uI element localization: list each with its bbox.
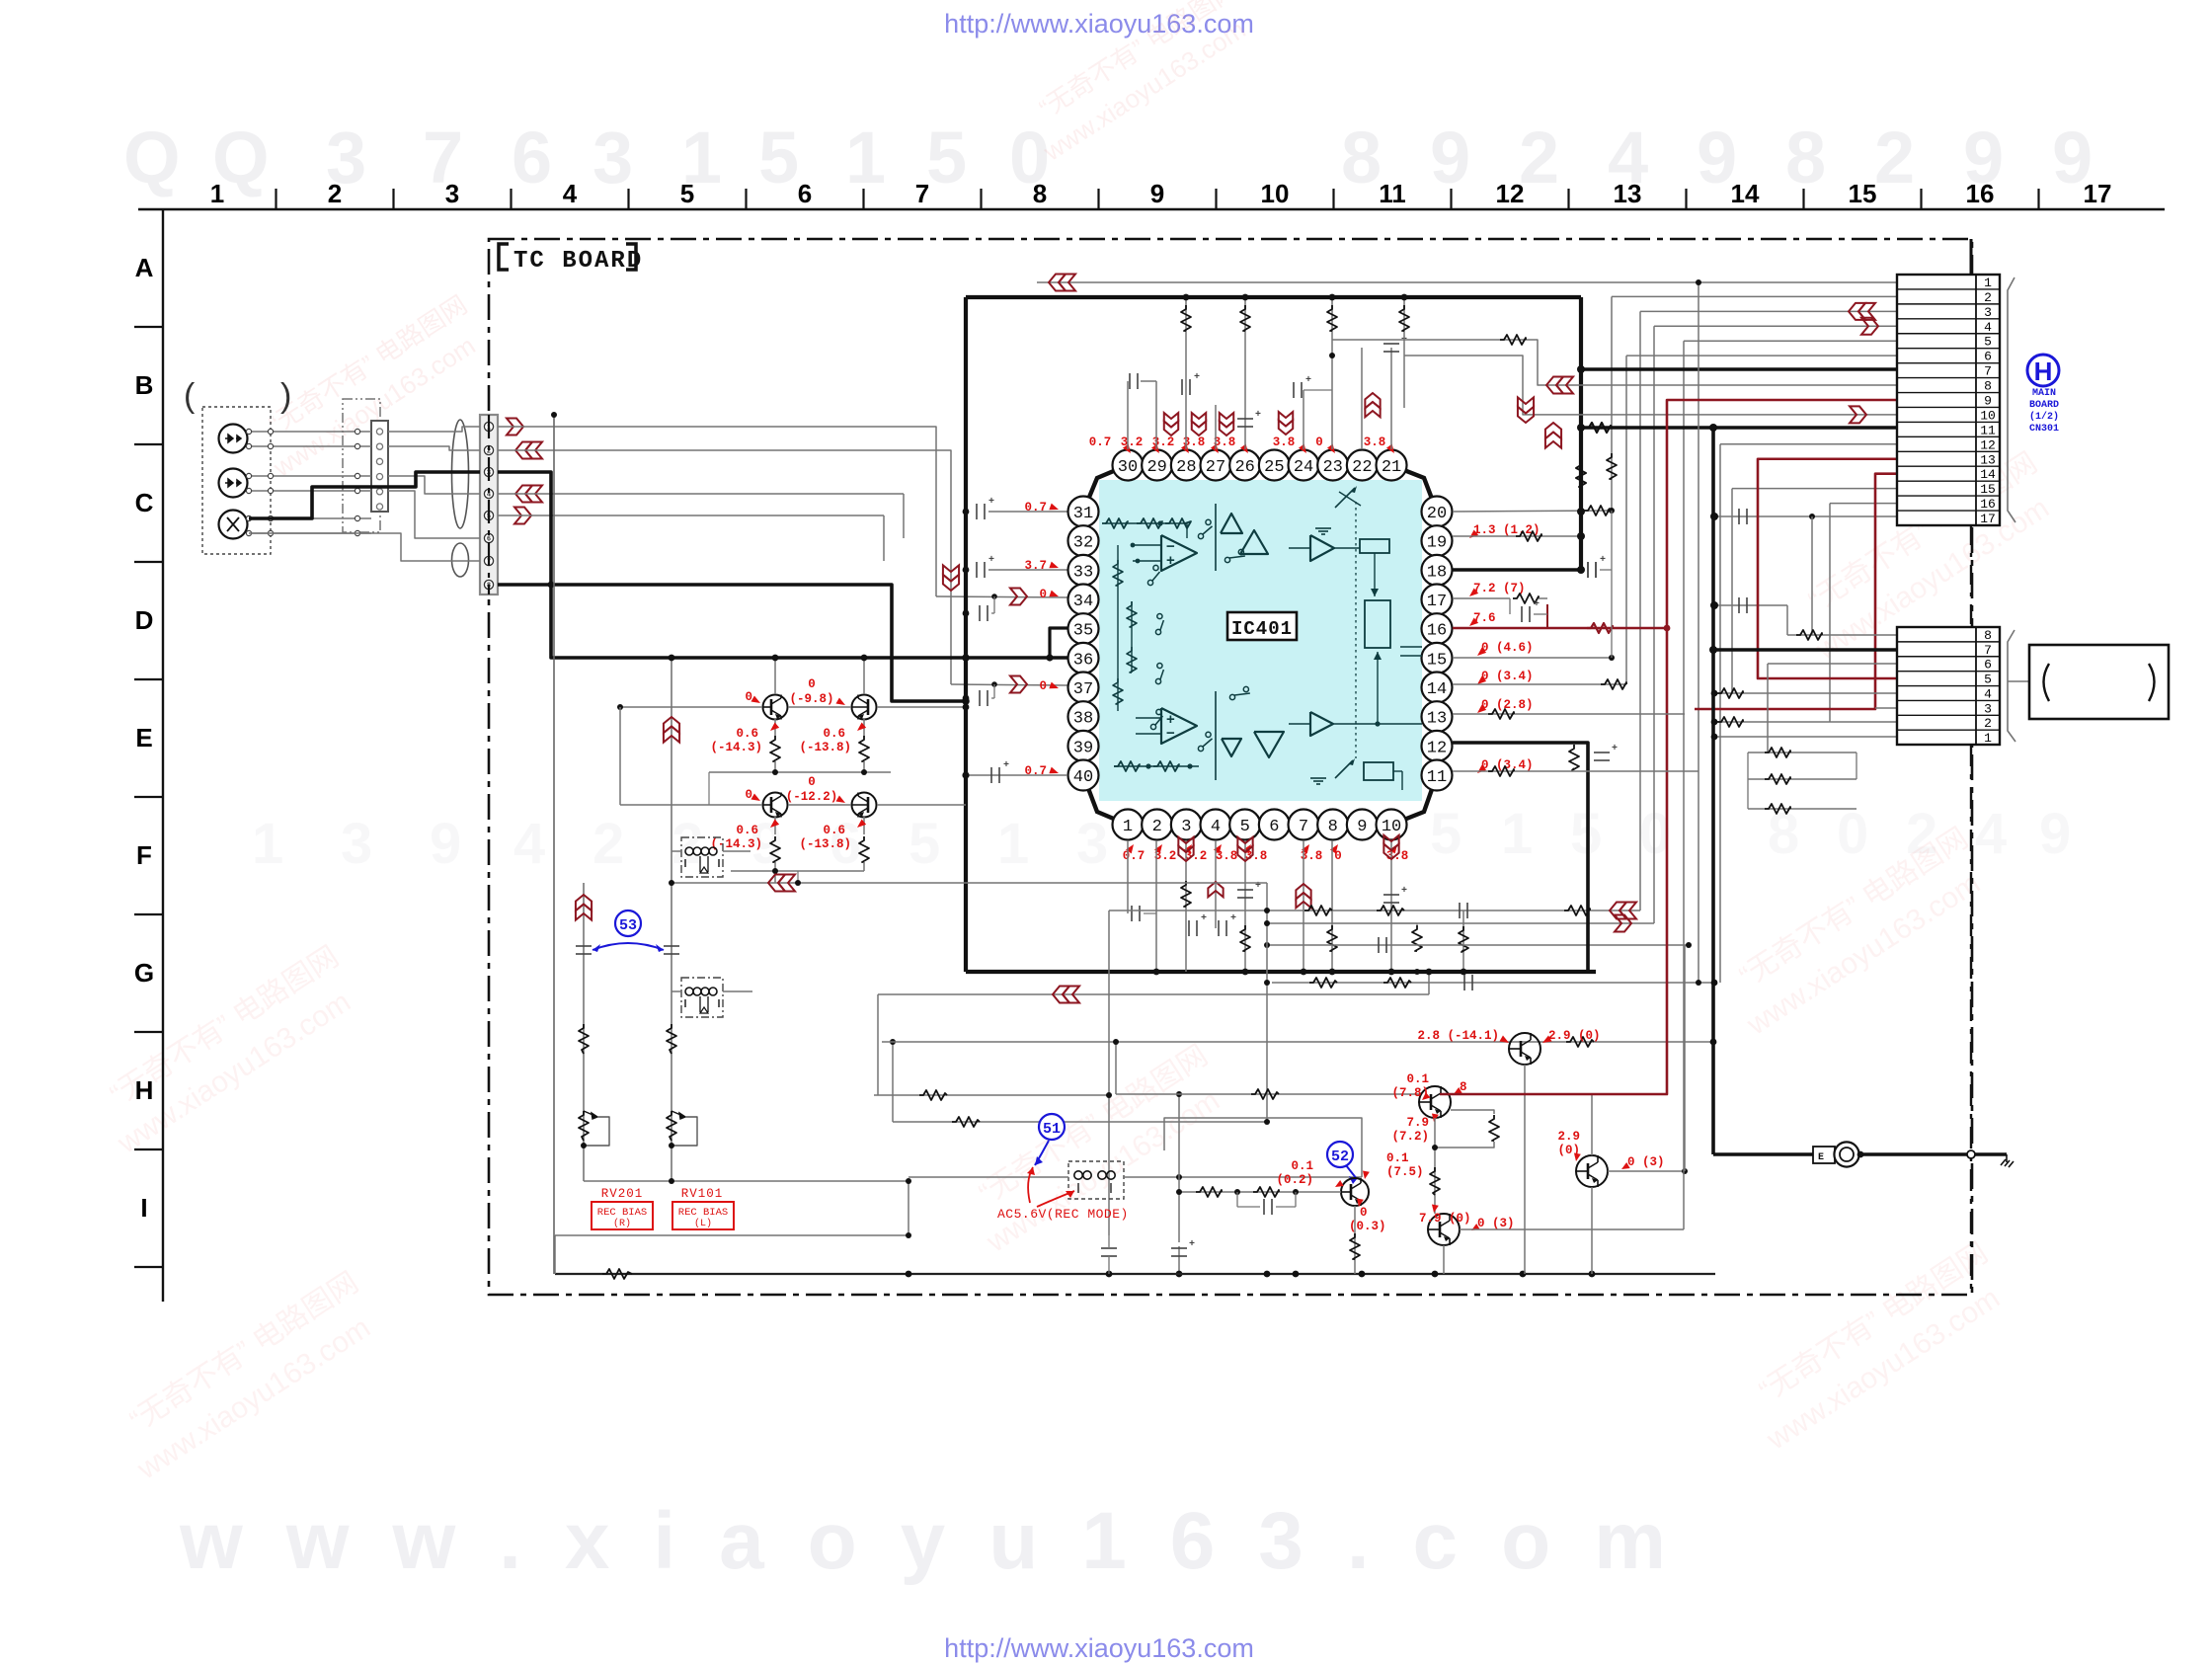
IC401 internal buffer triangles bottom: [1222, 739, 1241, 756]
svg-text:3.8: 3.8: [1364, 436, 1386, 449]
svg-text:(-12.2): (-12.2): [786, 790, 838, 804]
svg-text:2: 2: [1984, 290, 1992, 305]
svg-text:8: 8: [1785, 117, 1826, 198]
svg-text:0.7: 0.7: [1123, 849, 1145, 863]
wire Q55 box left: [1164, 1118, 1362, 1177]
svg-text:6: 6: [1984, 350, 1992, 364]
watermark pink diagonal group 5: [1716, 822, 1998, 1042]
wire osc line left: [908, 1176, 1068, 1178]
wire Q1 emitter resistor: [774, 719, 776, 736]
wire Q3 base: [620, 804, 762, 806]
svg-text:19: 19: [1427, 534, 1447, 553]
IC401 internal amp mid-right wire: [1355, 724, 1357, 758]
cap to pin33: [963, 567, 970, 574]
svg-text:0.6: 0.6: [736, 727, 758, 741]
svg-text:52: 52: [1331, 1148, 1349, 1165]
svg-text:16: 16: [1427, 622, 1447, 641]
watermark faint digits middle: [252, 802, 2071, 876]
svg-text:22: 22: [1352, 458, 1372, 477]
svg-text:(-14.3): (-14.3): [710, 837, 762, 851]
chevron row3: [1849, 303, 1865, 320]
wire to chassis: [1713, 1152, 1834, 1155]
transistor Q52: [1428, 1214, 1460, 1245]
svg-text:2.9: 2.9: [1557, 1130, 1580, 1144]
ruler left line: [162, 209, 164, 1302]
IC401 internal divider line 2: [1215, 691, 1217, 780]
TC BOARD label brackets: [499, 244, 509, 270]
connector CN102 pin numbers: [1984, 628, 1992, 746]
IC401 internal buffer triangles top: [1221, 514, 1242, 533]
svg-text:30: 30: [1118, 458, 1138, 477]
wire vertical x1194: [1178, 1094, 1180, 1274]
svg-text:3: 3: [1984, 701, 1992, 716]
svg-text:13: 13: [1614, 179, 1642, 208]
wire row11 thick: [1581, 426, 1897, 430]
cap below pin34 wire: [963, 610, 970, 617]
svg-text:0: 0: [1360, 1206, 1368, 1220]
wire row y935 stub: [1267, 922, 1654, 924]
wire pin4 down: [1215, 840, 1217, 928]
svg-text:0.1: 0.1: [1291, 1159, 1313, 1173]
svg-text:21: 21: [1382, 458, 1401, 477]
power bus right thick: [1579, 297, 1583, 570]
chevron to pin37: [1010, 676, 1027, 693]
watermark pink diagonal group 1: [87, 940, 368, 1160]
svg-text:3.8: 3.8: [1273, 436, 1296, 449]
watermark pink diagonal group 7: [246, 289, 493, 483]
svg-text:G: G: [134, 958, 154, 988]
wire lower row3 stub: [1875, 707, 1897, 709]
IC401 internal block2: [1365, 600, 1390, 648]
wire pin10b resistor right: [1462, 911, 1464, 972]
power bus left thick: [964, 297, 968, 972]
wire Q55 down resistor: [1354, 1206, 1356, 1274]
svg-text:9: 9: [1984, 393, 1992, 408]
svg-text:(-14.3): (-14.3): [710, 741, 762, 754]
wire Q1 base: [620, 706, 762, 708]
svg-text:6: 6: [1984, 658, 1992, 673]
svg-text:RV201: RV201: [601, 1187, 644, 1201]
chevron bias L up: [664, 717, 679, 733]
svg-text:BOARD: BOARD: [2029, 400, 2059, 411]
wire pin14 row: [1453, 683, 1626, 685]
svg-text:1: 1: [210, 179, 224, 208]
svg-text:http://www.xiaoyu163.com: http://www.xiaoyu163.com: [944, 1633, 1254, 1663]
wire row y922: [1109, 910, 1640, 911]
wire row16: [1830, 503, 1897, 505]
pot RV201: [579, 1111, 589, 1141]
chevron bias R up: [576, 895, 592, 911]
svg-text:40: 40: [1073, 768, 1093, 787]
connector CN102 box: [1897, 627, 2000, 745]
wire row y1109: [874, 1094, 1109, 1096]
wire lower row2 resistor: [1714, 721, 1897, 723]
wire Q52 down: [1443, 1245, 1445, 1274]
IC401 right pins 20-11: [1422, 497, 1453, 527]
IC401 internal gnd top: [1315, 527, 1331, 529]
jack J1: [219, 425, 248, 453]
wire vertical x1283: [1266, 883, 1268, 1122]
transistor Q2: [852, 695, 877, 720]
chevron to pin34: [1010, 589, 1027, 605]
jack block dotted box: [202, 407, 271, 554]
TC BOARD right edge detail: [1970, 239, 1973, 275]
svg-text:A: A: [135, 253, 154, 282]
svg-text:35: 35: [1073, 622, 1093, 641]
wire Q2 collector: [863, 658, 865, 694]
svg-text:REC BIAS: REC BIAS: [597, 1207, 647, 1219]
wire pin28 vertical with resistor: [1185, 297, 1187, 449]
svg-text:11: 11: [1980, 423, 1996, 437]
svg-text:31: 31: [1073, 505, 1093, 523]
cable oval 1: [452, 420, 469, 528]
connector CN301 pin numbers: [1980, 276, 1996, 526]
wire lower row1: [1714, 736, 1897, 738]
wire pin7 down: [1303, 840, 1304, 972]
svg-text:0 (2.8): 0 (2.8): [1481, 698, 1534, 712]
svg-text:7.9 (0): 7.9 (0): [1419, 1212, 1471, 1226]
wire Q1-Q2 link: [788, 706, 851, 708]
svg-text:(1/2): (1/2): [2029, 411, 2059, 423]
resistor bias L: [667, 1024, 676, 1054]
svg-text:13: 13: [1427, 710, 1447, 729]
wire thick vertical x1735: [1711, 428, 1715, 1154]
chevron above IC d2: [1192, 422, 1206, 436]
wire strip to CN101 row6: [388, 491, 480, 538]
wire thick branch to lower row7: [1713, 648, 1897, 652]
chevron row y894: [768, 875, 785, 892]
svg-text:17: 17: [1980, 512, 1996, 526]
wire row4: [1654, 325, 1897, 327]
wire Q1 collector: [774, 658, 776, 694]
svg-text:3: 3: [1181, 818, 1191, 836]
wire Q2 right: [877, 706, 966, 708]
svg-text:0.7: 0.7: [1024, 501, 1047, 515]
svg-text:): ): [280, 377, 291, 415]
connector CN301 box: [1897, 275, 2000, 525]
cap below pin37 wire: [963, 695, 970, 702]
chevron row y922: [1610, 903, 1626, 919]
wire vertical x1123: [1108, 911, 1110, 1235]
resistor x1601 mid: [1576, 461, 1586, 487]
svg-text:51: 51: [1043, 1121, 1061, 1138]
IC401 internal ladder left: [1117, 545, 1119, 711]
wire Q55 sub cap branch: [1236, 1192, 1238, 1207]
svg-text:0.1: 0.1: [1406, 1072, 1429, 1086]
svg-text:w w w . x i a o y u 1 6 3 . c: w w w . x i a o y u 1 6 3 . c o m: [179, 1496, 1666, 1586]
IC401 internal op-amp U-a: [1161, 535, 1197, 571]
wire resistor stub right of bus: [1403, 297, 1405, 408]
svg-text:14: 14: [1427, 680, 1447, 699]
wire Q54 right: [1608, 1170, 1685, 1172]
callout 52: [1327, 1142, 1353, 1167]
wire pin3 down resistor: [1185, 840, 1187, 972]
wire CN101-2 down x963: [498, 450, 951, 684]
wire Q54 up: [1591, 1094, 1593, 1155]
svg-text:1: 1: [1984, 731, 1992, 746]
svg-text:AC5.6V(REC MODE): AC5.6V(REC MODE): [997, 1207, 1129, 1222]
pot RV101: [667, 1111, 676, 1141]
wire y360 to row10: [1404, 356, 1897, 415]
wire vertical x1130: [1115, 1042, 1117, 1094]
wire thick CN101-3 down to pin36 bus: [498, 472, 966, 658]
cap x1123 bottom: [1101, 1247, 1117, 1249]
wire pin27 vertical: [1215, 405, 1217, 449]
svg-text:6: 6: [1269, 818, 1279, 836]
svg-text:+: +: [1600, 555, 1606, 566]
svg-text:+: +: [1534, 599, 1540, 610]
ring lug E: [1813, 1147, 1835, 1163]
chevron row10: [1850, 406, 1866, 423]
wire Q3-Q4 link: [788, 804, 851, 806]
wire vertical x1705: [1683, 341, 1685, 1229]
IC401 internal block3: [1364, 762, 1393, 780]
IC401 internal resistors bottom-left: [1114, 761, 1140, 771]
svg-text:(: (: [184, 377, 196, 415]
IC401 internal dotted line: [1355, 502, 1357, 758]
svg-text:6: 6: [512, 117, 552, 198]
ruler left letters: [134, 253, 154, 1223]
wire T201 leads: [671, 850, 681, 852]
wire pin37 feed: [951, 684, 1067, 685]
wire row3: [1640, 310, 1897, 312]
power bus top thick: [966, 295, 1581, 299]
svg-text:15: 15: [1427, 651, 1447, 670]
svg-text:53: 53: [619, 917, 637, 934]
svg-text:5: 5: [680, 179, 694, 208]
wire thick pin36 lead: [966, 656, 1071, 660]
wire pin30 cap: [1127, 381, 1129, 449]
chevron row y1007: [1053, 987, 1069, 1003]
wire y344 to row8: [1332, 340, 1897, 385]
shield dash-dot box: [343, 399, 380, 532]
svg-text:9: 9: [430, 812, 461, 876]
svg-text:0.6: 0.6: [823, 727, 845, 741]
wire bottom long bus: [555, 1273, 1715, 1275]
svg-text:2: 2: [592, 812, 624, 876]
ground bus left vertical: [553, 415, 555, 1274]
wire vertical x1754: [1731, 489, 1733, 694]
IC401 internal switch s3: [1198, 746, 1203, 751]
watermark pink diagonal group 3: [956, 1039, 1237, 1259]
open junction: [1967, 1150, 1975, 1158]
wire vertical x1810: [1786, 605, 1788, 635]
wire bias bottoms: [584, 1180, 908, 1182]
wire row15: [1732, 488, 1897, 490]
IC401 internal block1: [1360, 539, 1389, 553]
svg-text:E: E: [1818, 1152, 1824, 1163]
record head box: [2029, 645, 2169, 719]
svg-text:11: 11: [1379, 179, 1406, 208]
transistor Q53: [1509, 1033, 1540, 1065]
svg-text:17: 17: [2084, 179, 2112, 208]
svg-text:H: H: [2034, 356, 2053, 386]
wire lower row6: [1768, 663, 1897, 665]
svg-text:F: F: [136, 840, 152, 870]
jack J3: [219, 511, 248, 539]
jack wires to strip: [249, 431, 371, 433]
wire pin19: [1453, 535, 1581, 537]
svg-text:24: 24: [1294, 458, 1313, 477]
wire base drop: [619, 707, 621, 805]
svg-text:1: 1: [845, 117, 886, 198]
wire Q53 down: [1524, 1065, 1526, 1274]
chevron CN101 row4 left: [515, 486, 532, 503]
svg-text:4: 4: [1984, 686, 1992, 701]
svg-text:28: 28: [1176, 458, 1196, 477]
wire pin10 down: [1390, 840, 1392, 972]
wire row12: [1720, 443, 1897, 445]
chevron CN101 row2 left: [515, 442, 532, 459]
board edge connector CN101: [480, 415, 498, 594]
svg-text:7.9: 7.9: [1406, 1116, 1429, 1130]
wire osc line right: [1124, 1176, 1362, 1178]
svg-text:15: 15: [1849, 179, 1877, 208]
svg-text:4: 4: [563, 179, 578, 208]
svg-text:2.9 (0): 2.9 (0): [1548, 1029, 1601, 1043]
svg-text:0: 0: [808, 677, 816, 691]
svg-text:5: 5: [908, 812, 940, 876]
svg-text:12: 12: [1496, 179, 1525, 208]
watermark pink diagonal group 6: [1736, 1236, 2017, 1457]
svg-text:+: +: [1003, 760, 1009, 771]
svg-text:7: 7: [1984, 643, 1992, 658]
svg-text:8: 8: [1984, 628, 1992, 643]
watermark pink diagonal group 2: [107, 1266, 388, 1486]
wire row y1108 black: [1116, 1093, 1419, 1095]
wire pin8 down: [1331, 840, 1333, 972]
svg-text:23: 23: [1322, 458, 1342, 477]
svg-text:(7.5): (7.5): [1386, 1165, 1424, 1179]
svg-text:5: 5: [1984, 335, 1992, 350]
svg-text:8: 8: [1328, 818, 1338, 836]
wire lower row4 resistor: [1714, 692, 1897, 694]
svg-text:2: 2: [671, 812, 703, 876]
wire strip to CN101 row1: [388, 427, 480, 432]
svg-text:12: 12: [1980, 437, 1996, 452]
svg-text:2.8 (-14.1): 2.8 (-14.1): [1417, 1029, 1499, 1043]
chevron above IC d3: [1220, 422, 1233, 436]
svg-text:2: 2: [328, 179, 342, 208]
wire Q52 right: [1460, 1228, 1684, 1230]
svg-text:12: 12: [1427, 739, 1447, 757]
IC401 body: [1099, 480, 1422, 801]
svg-text:14: 14: [1731, 179, 1760, 208]
svg-text:3: 3: [1984, 305, 1992, 320]
svg-text:0 (3): 0 (3): [1477, 1217, 1515, 1230]
IC401 internal resistors top-left: [1102, 518, 1128, 528]
wire vertical x1632: [1611, 296, 1613, 511]
IC401 internal op-amp U-b: [1161, 708, 1197, 744]
chevron row4: [1861, 318, 1878, 335]
cable oval 2: [452, 543, 469, 577]
wire emitter join top pair: [709, 771, 891, 773]
svg-text:+: +: [1401, 886, 1407, 897]
chevron row1: [1049, 275, 1066, 291]
wire thick CN101-8 down: [498, 585, 966, 701]
svg-text:(-13.8): (-13.8): [799, 837, 851, 851]
wire CN101-4 right: [498, 493, 904, 495]
wire Q51 emitter loop: [1451, 1110, 1494, 1114]
wire left drop to bottom bus: [555, 1234, 908, 1236]
IC401 outline: [1083, 465, 1437, 825]
wire row y894: [671, 882, 1267, 884]
svg-text:0 (4.6): 0 (4.6): [1481, 641, 1534, 655]
wire pin23 vertical with resistor: [1331, 297, 1333, 449]
IC401 internal gnd bottom: [1310, 777, 1326, 779]
wire CN101-1 down x948: [498, 427, 936, 596]
wire pin40 feed: [966, 774, 1067, 776]
svg-text:1: 1: [1123, 818, 1133, 836]
wire vertical x1835: [1811, 516, 1813, 635]
ruler top numbers: [210, 179, 2112, 208]
IC401 internal var-res top-right: [1335, 488, 1355, 508]
wire bias line R vertical: [583, 883, 585, 1181]
svg-text:0: 0: [1039, 679, 1047, 693]
wire bias line L vertical: [671, 658, 672, 1181]
svg-text:34: 34: [1073, 593, 1093, 611]
svg-text:(0.2): (0.2): [1276, 1173, 1313, 1187]
svg-text:2: 2: [1152, 818, 1162, 836]
wire Q55 base row: [1179, 1191, 1341, 1193]
svg-text:0 (3): 0 (3): [1627, 1155, 1665, 1169]
svg-text:13: 13: [1980, 452, 1996, 467]
IC401 internal pin15 stubs: [1400, 646, 1422, 648]
IC401 internal amp bottom-right: [1310, 712, 1333, 736]
wire pin29 vertical: [1155, 381, 1157, 449]
svg-text:8: 8: [1984, 379, 1992, 394]
chevron row y935: [1615, 915, 1631, 932]
svg-text:0: 0: [808, 775, 816, 789]
cap bias L: [664, 945, 679, 947]
wire strip to CN101 row4: [388, 476, 480, 494]
wire row6: [1626, 355, 1897, 356]
transistor Q4: [852, 793, 877, 818]
connector CN102 bracket: [2008, 630, 2015, 742]
chevron mid right: [1518, 407, 1534, 423]
svg-text:25: 25: [1264, 458, 1284, 477]
wire Q4 emitter resistor: [863, 817, 865, 834]
svg-text:7: 7: [1299, 818, 1308, 836]
svg-text:+: +: [1189, 1239, 1195, 1250]
watermark pink diagonal group 8: [1016, 0, 1263, 167]
svg-text:+: +: [988, 497, 994, 508]
transformer T201: [681, 837, 723, 877]
svg-text:3.7: 3.7: [1024, 559, 1047, 573]
wire top bus to row1: [1037, 281, 1897, 283]
svg-text:10: 10: [1980, 408, 1996, 423]
TC BOARD border: [489, 239, 1972, 1295]
watermark faint digits top: [123, 117, 2093, 198]
chevron below IC 5: [1383, 844, 1398, 859]
wire Q2 emitter resistor: [863, 719, 865, 736]
chassis ground: [2001, 1154, 2014, 1167]
ruler left ticks: [134, 326, 164, 328]
svg-text:8: 8: [1341, 117, 1382, 198]
svg-text:9: 9: [1430, 117, 1470, 198]
svg-text:I: I: [140, 1193, 147, 1223]
svg-text:9: 9: [1150, 179, 1164, 208]
wire vertical x1661: [1639, 311, 1641, 911]
wire vertical x1790: [1767, 664, 1769, 752]
wire row7 thick: [1581, 367, 1897, 371]
wire row y995: [1272, 982, 1714, 984]
wire row17 cap: [1714, 515, 1897, 517]
svg-text:5: 5: [1984, 673, 1992, 687]
cap to pin31: [963, 509, 970, 515]
wire red pin16: [1453, 627, 1667, 630]
svg-text:(-9.8): (-9.8): [789, 692, 833, 706]
